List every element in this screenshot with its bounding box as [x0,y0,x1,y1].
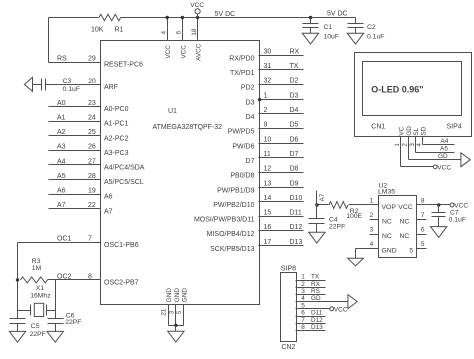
svg-text:D13: D13 [290,239,303,246]
svg-text:D12: D12 [290,224,303,231]
svg-text:19: 19 [88,188,96,195]
svg-text:26: 26 [88,144,96,151]
svg-text:0.1uF: 0.1uF [367,33,384,40]
svg-text:D11: D11 [311,310,323,317]
svg-text:O-LED 0.96": O-LED 0.96" [371,85,423,95]
svg-text:3: 3 [168,310,175,314]
svg-text:GD: GD [311,295,321,302]
svg-text:A3: A3 [57,144,66,151]
svg-text:RX: RX [311,281,321,288]
svg-text:NC: NC [400,233,410,240]
svg-text:RS: RS [311,288,320,295]
svg-text:PW/PB1/D9: PW/PB1/D9 [217,187,254,194]
svg-text:24: 24 [88,115,96,122]
svg-text:GND: GND [174,288,181,303]
svg-text:1: 1 [370,197,374,204]
svg-text:NC: NC [382,233,392,240]
svg-text:LM35: LM35 [378,189,395,196]
svg-text:VCC: VCC [190,2,204,9]
svg-text:RESET-PC6: RESET-PC6 [104,62,143,69]
svg-text:23: 23 [88,100,96,107]
svg-text:OSC1-PB6: OSC1-PB6 [104,242,139,249]
svg-text:X1: X1 [36,285,45,292]
svg-text:D13: D13 [311,324,323,331]
svg-text:D4: D4 [246,114,255,121]
svg-text:D2: D2 [290,78,299,85]
svg-text:A5: A5 [57,173,66,180]
svg-text:1: 1 [264,92,268,99]
svg-text:22PF: 22PF [65,319,81,326]
svg-text:16: 16 [264,224,272,231]
svg-text:PW/PB2/D10: PW/PB2/D10 [213,202,254,209]
svg-text:A4: A4 [57,158,66,165]
svg-text:20: 20 [88,78,96,85]
svg-text:11: 11 [264,151,271,158]
svg-text:CN1: CN1 [371,124,385,131]
svg-text:6: 6 [176,30,183,34]
svg-text:VCC: VCC [180,45,187,59]
svg-text:A0: A0 [57,100,66,107]
svg-text:18: 18 [191,28,198,35]
svg-text:D3: D3 [246,99,255,106]
svg-text:10K: 10K [91,26,104,33]
svg-text:6: 6 [301,310,305,317]
svg-text:5: 5 [301,302,305,309]
svg-text:D11: D11 [290,210,302,217]
svg-text:C5: C5 [31,323,40,330]
svg-text:A0-PC0: A0-PC0 [104,106,129,113]
svg-text:2: 2 [301,281,305,288]
svg-text:A4/PC4/SDA: A4/PC4/SDA [104,165,145,172]
svg-text:21: 21 [161,308,168,315]
svg-text:1: 1 [301,274,305,281]
svg-text:GND: GND [166,288,173,303]
svg-text:A6: A6 [104,194,113,201]
svg-text:5: 5 [421,241,425,248]
svg-text:16Mhz: 16Mhz [30,292,51,299]
svg-text:PB0/D8: PB0/D8 [230,173,254,180]
svg-text:U1: U1 [168,108,177,115]
svg-text:25: 25 [88,129,96,136]
svg-text:VC: VC [399,126,406,135]
svg-text:A7: A7 [319,193,326,201]
svg-text:30: 30 [264,48,272,55]
svg-text:RX/PD0: RX/PD0 [229,55,254,62]
svg-text:7: 7 [301,317,305,324]
svg-text:D7: D7 [290,151,299,158]
svg-text:GND: GND [382,248,397,255]
svg-text:ATMEGA328TQPF-32: ATMEGA328TQPF-32 [153,124,223,131]
svg-text:A1-PC1: A1-PC1 [104,121,129,128]
svg-text:A7: A7 [104,208,113,215]
svg-text:2: 2 [264,107,268,114]
svg-text:VCC: VCC [398,204,412,211]
svg-text:PW/PD5: PW/PD5 [228,129,255,136]
svg-text:12: 12 [264,166,272,173]
svg-text:5: 5 [176,310,183,314]
svg-text:SD: SD [421,126,428,135]
svg-text:TX: TX [311,274,320,281]
svg-text:NC: NC [400,219,410,226]
svg-text:TX/PD1: TX/PD1 [230,70,255,77]
svg-text:4: 4 [370,241,374,248]
svg-text:R1: R1 [115,26,124,33]
svg-text:D4: D4 [290,107,299,114]
svg-text:RS: RS [57,55,67,62]
svg-text:15: 15 [264,210,272,217]
svg-text:A4: A4 [440,138,448,145]
svg-text:SIP4: SIP4 [447,124,462,131]
svg-text:C3: C3 [63,78,72,85]
svg-text:D10: D10 [290,195,303,202]
svg-text:13: 13 [264,180,272,187]
svg-text:R3: R3 [32,258,41,265]
svg-text:8: 8 [421,197,425,204]
svg-text:C2: C2 [367,24,376,31]
svg-text:0.1uF: 0.1uF [63,86,80,93]
svg-text:8: 8 [301,324,305,331]
svg-text:D5: D5 [290,122,299,129]
svg-text:D8: D8 [290,166,299,173]
svg-text:RX: RX [290,48,300,55]
svg-text:32: 32 [264,78,272,85]
svg-text:A2: A2 [57,129,66,136]
svg-text:7: 7 [88,236,92,243]
svg-text:MISO/PB4/D12: MISO/PB4/D12 [207,231,255,238]
svg-text:100E: 100E [346,213,362,220]
svg-text:D6: D6 [290,136,299,143]
svg-text:AVCC: AVCC [196,43,203,61]
svg-text:GD: GD [438,153,448,160]
svg-text:OC1: OC1 [57,236,72,243]
svg-text:SIP8: SIP8 [281,265,296,272]
svg-text:5: 5 [409,248,413,255]
svg-text:14: 14 [264,195,272,202]
svg-text:3: 3 [370,226,374,233]
svg-text:27: 27 [88,158,96,165]
svg-text:9: 9 [264,122,268,129]
svg-text:NC: NC [382,219,392,226]
svg-text:2: 2 [370,212,374,219]
svg-text:A6: A6 [57,188,66,195]
svg-text:1M: 1M [32,265,42,272]
svg-text:D12: D12 [311,317,323,324]
svg-text:ARF: ARF [104,84,118,91]
svg-text:VOP: VOP [382,204,397,211]
svg-text:6: 6 [421,226,425,233]
svg-text:SCK/PB5/D13: SCK/PB5/D13 [210,246,254,253]
svg-text:GD: GD [406,126,413,136]
svg-text:17: 17 [264,239,272,246]
svg-text:VCC: VCC [437,164,451,171]
svg-text:PW/D6: PW/D6 [232,143,254,150]
svg-text:A5: A5 [440,146,448,153]
svg-text:CN2: CN2 [281,344,295,351]
svg-text:A5/PC5/SCL: A5/PC5/SCL [104,179,144,186]
svg-text:10uF: 10uF [324,33,340,40]
svg-text:5V DC: 5V DC [327,10,348,17]
svg-text:A7: A7 [57,202,66,209]
svg-text:A1: A1 [57,115,66,122]
svg-text:C7: C7 [450,209,459,216]
svg-text:OSC2-PB7: OSC2-PB7 [104,280,139,287]
svg-text:MOSI/PW/PB3/D11: MOSI/PW/PB3/D11 [194,217,255,224]
svg-text:22: 22 [88,202,96,209]
svg-text:A2-PC2: A2-PC2 [104,135,129,142]
svg-text:31: 31 [264,63,272,70]
svg-text:TX: TX [290,63,299,70]
svg-text:D7: D7 [246,158,255,165]
svg-text:3: 3 [301,288,305,295]
svg-text:4: 4 [161,30,168,34]
svg-text:VCC: VCC [334,306,348,313]
svg-text:D3: D3 [290,92,299,99]
svg-text:4: 4 [301,295,305,302]
svg-text:22PF: 22PF [329,224,345,231]
svg-text:A3-PC3: A3-PC3 [104,150,129,157]
svg-text:5V DC: 5V DC [215,11,236,18]
svg-text:D9: D9 [290,180,299,187]
svg-text:0.1uF: 0.1uF [449,217,466,224]
svg-text:GND: GND [181,288,188,303]
svg-text:SL: SL [413,127,420,135]
svg-text:29: 29 [88,55,96,62]
svg-text:PD2: PD2 [241,85,255,92]
svg-text:C1: C1 [324,24,333,31]
svg-text:7: 7 [421,212,425,219]
svg-text:10: 10 [264,136,272,143]
svg-text:28: 28 [88,173,96,180]
svg-text:22PF: 22PF [30,331,46,338]
svg-text:VCC: VCC [165,45,172,59]
